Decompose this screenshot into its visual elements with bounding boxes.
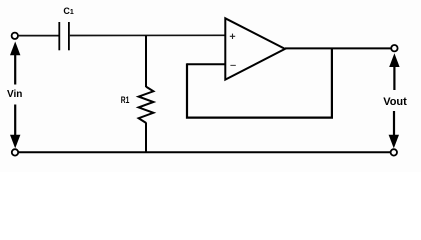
svg-text:R1: R1 xyxy=(121,95,130,105)
svg-text:C1: C1 xyxy=(63,6,74,16)
capacitor C1 xyxy=(59,22,69,50)
op-amp U1 xyxy=(225,18,285,79)
wire xyxy=(145,123,147,153)
output terminal (bottom-right) xyxy=(391,149,397,155)
wire xyxy=(70,34,225,36)
output terminal (top-right) xyxy=(391,45,397,51)
node junction to R1 xyxy=(145,36,147,88)
wire (feedback loop) xyxy=(187,48,332,117)
Vout arrow up xyxy=(389,53,399,90)
svg-text:Vout: Vout xyxy=(383,96,407,108)
svg-text:Vin: Vin xyxy=(7,89,22,100)
wire xyxy=(18,35,58,37)
bottom wire xyxy=(18,151,390,153)
resistor R1 xyxy=(139,87,154,123)
wire (inverting input) xyxy=(187,63,225,65)
wire (output) xyxy=(285,47,391,49)
Vin arrow down xyxy=(10,105,20,149)
Vout arrow down xyxy=(389,111,399,148)
input terminal (bottom-left) xyxy=(12,149,18,155)
input terminal (top-left) xyxy=(12,33,18,39)
Vin arrow up xyxy=(10,42,20,85)
